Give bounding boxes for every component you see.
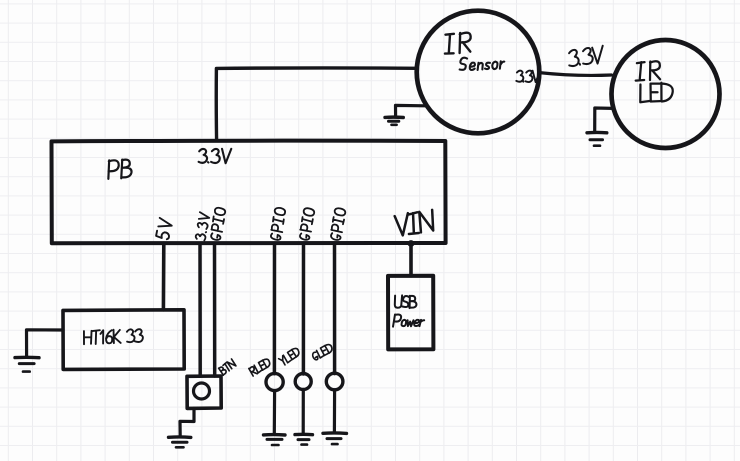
net label 3.3V on wire [567, 46, 604, 67]
green LED GLED [326, 373, 343, 390]
label USB Power [393, 295, 424, 326]
pin label GPIO (green LED) [330, 208, 346, 241]
ground (RLED) [264, 435, 286, 445]
pin label 5V [156, 218, 173, 240]
pin GPIO wire (red LED) [273, 243, 277, 374]
wire YLED to ground [302, 390, 305, 434]
ground (IR sensor) [385, 105, 425, 124]
yellow LED YLED [295, 374, 311, 390]
wire 3.3V from IR sensor to IR LED [540, 73, 612, 76]
label GLED [311, 343, 334, 361]
label BTN [218, 359, 236, 375]
pin label GPIO (yellow LED) [299, 208, 315, 241]
wire RLED to ground [273, 391, 277, 434]
label IR sensor [443, 32, 504, 71]
pin label 3.3V inside IR sensor [516, 70, 540, 82]
pin GPIO wire (yellow LED) [302, 243, 306, 374]
ground (GLED) [323, 433, 347, 444]
pin label GPIO (button) [210, 207, 226, 241]
junction dot VIN [408, 240, 415, 247]
pin GPIO wire (green LED) [333, 243, 337, 373]
pin label GPIO (red LED) [270, 207, 287, 241]
pin 5V wire [162, 243, 166, 310]
label IR LED [634, 61, 673, 103]
IR LED [612, 40, 720, 148]
label HT16K33 [84, 329, 144, 345]
pin label 3.3V [195, 212, 210, 240]
net label 3.3V on board [199, 149, 232, 163]
IR sensor [417, 11, 540, 134]
wire GLED to ground [333, 390, 336, 433]
board PB outline [52, 141, 446, 244]
ground (HT16K33) [15, 330, 63, 372]
pin 3.3V wire [198, 243, 202, 376]
pin GPIO wire (button) [213, 243, 217, 376]
HT16K33 box [63, 310, 184, 370]
ground (IR LED) [587, 108, 613, 146]
USB power box [388, 276, 433, 350]
wire 3.3V from board top to IR sensor [216, 68, 417, 141]
label PB [107, 159, 132, 179]
red LED RLED [266, 373, 283, 390]
ground (YLED) [295, 434, 313, 444]
pin label VIN [395, 209, 436, 236]
pin VIN wire [409, 243, 413, 276]
label RLED [249, 357, 272, 376]
ground (BTN) [169, 408, 195, 447]
label YLED [279, 347, 301, 366]
button BTN [187, 376, 221, 408]
